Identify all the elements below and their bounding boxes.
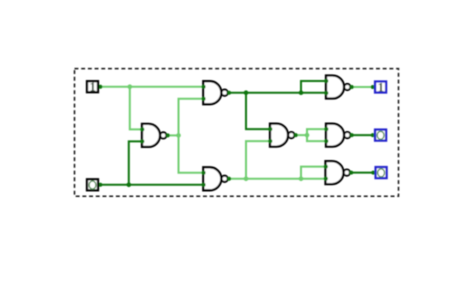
input pin IN0 value 0 <box>87 179 98 190</box>
pin dot: U4 input a <box>268 127 272 131</box>
pin dot: U6 input a <box>324 127 328 131</box>
svg-text:1: 1 <box>378 80 384 94</box>
pin dot: input 0 output pin <box>98 183 102 187</box>
output pin OUT1 value 1 <box>375 80 386 94</box>
pin dot: U1 input b <box>140 139 144 143</box>
wire: riser feeding U2 lower and U3 upper inputs <box>179 99 204 173</box>
pin dot: U5 input b <box>324 91 328 95</box>
node: junction on U3 output at x246 <box>244 177 249 182</box>
node: junction on U2 output at x246 <box>244 90 249 95</box>
input pin IN1 value 1 <box>87 80 98 94</box>
nand gate U5 <box>326 76 350 99</box>
wire: gate U6 output to output pin O1 <box>351 134 374 136</box>
wire: tie bar feeding both inputs of gate U6 <box>307 129 326 141</box>
output pin OUT2 value 0 <box>375 130 386 141</box>
wire: gate U3 output run to gate U7 lower input <box>228 178 325 180</box>
pin dot: U6 input b <box>324 139 328 143</box>
wire: net B from input 0 to gate U3 lower input <box>99 184 203 186</box>
output pin OUT3 value 0 <box>376 167 387 178</box>
nand gate U3 <box>203 167 227 190</box>
nand gate U7 <box>326 161 350 184</box>
nand gate U6 <box>326 124 350 147</box>
wire: branch up to gate U4 lower input <box>246 141 270 179</box>
node: junction U1 output tee <box>176 133 181 138</box>
nand gate U2 <box>203 81 227 104</box>
pin dot: U3 input b <box>202 183 206 187</box>
pin dot: input 1 output pin <box>98 85 102 89</box>
dashed selection border <box>75 69 399 197</box>
pin dot: U7 output pin <box>349 171 353 175</box>
node: junction net B <box>127 183 132 188</box>
node: junction on U2 output at x301 <box>299 90 304 95</box>
pin dot: U3 input a <box>202 171 206 175</box>
pin dot: U2 input a <box>202 85 206 89</box>
pin dot: U1 output pin <box>166 133 170 137</box>
node: junction on tie bar <box>305 133 310 138</box>
node: junction on U3 output at x301 <box>299 177 304 182</box>
pin dot: U6 output pin <box>350 133 354 137</box>
pin dot: output pin O1 input <box>371 133 375 137</box>
pin dot: output pin O2 input <box>371 171 375 175</box>
node: junction net A <box>128 84 133 89</box>
pin dot: U4 output pin <box>294 133 298 137</box>
wire: gate U7 output to output pin O2 <box>350 172 374 174</box>
wire: gate U2 output run to gate U5 lower input <box>228 92 326 94</box>
pin dot: U7 input b <box>324 177 328 181</box>
pin dot: U3 output pin <box>227 177 231 181</box>
pin dot: U5 input a <box>324 79 328 83</box>
pin dot: U7 input a <box>324 165 328 169</box>
pin dot: U4 input b <box>268 139 272 143</box>
pin dot: U1 input a <box>140 127 144 131</box>
wire: branch up to gate U5 upper input <box>301 81 326 93</box>
pin dot: U5 output pin <box>350 85 354 89</box>
pin dot: U2 input b <box>202 97 206 101</box>
pin dot: output pin 1 input <box>371 85 375 89</box>
wire: gate U4 output to tie bar <box>295 134 307 136</box>
wire: net A branch to gate U1 upper input <box>130 87 142 130</box>
wire: branch down to gate U4 upper input <box>246 93 270 129</box>
pin dot: U2 output pin <box>227 91 231 95</box>
wire: gate U5 output to output pin 1 <box>351 86 374 88</box>
nand gate U1 <box>142 124 166 147</box>
wire: branch up to gate U7 upper input <box>301 167 326 179</box>
nand gate U4 <box>270 124 294 147</box>
wire: gate U1 output to riser <box>167 134 179 136</box>
svg-text:1: 1 <box>90 80 96 94</box>
wire: net B branch to gate U1 lower input <box>129 141 142 184</box>
wire: net A from input 1 to gate U2 upper input <box>99 86 203 88</box>
